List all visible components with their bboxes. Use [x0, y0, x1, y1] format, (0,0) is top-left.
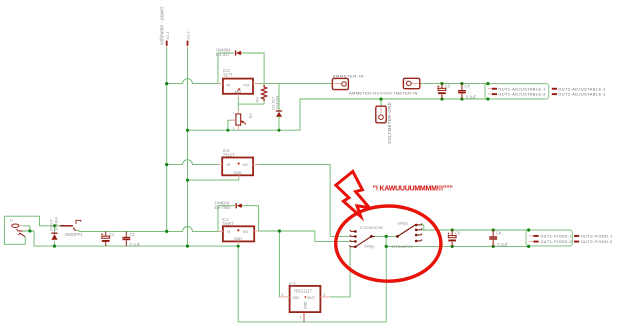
- svg-text:IC3: IC3: [289, 281, 296, 286]
- svg-text:J1: J1: [10, 219, 14, 223]
- node junction C6 top: [492, 228, 495, 231]
- diode D2 1N4004 from ADJ to output: [276, 111, 282, 117]
- op-amp regulator IC4 7812T body: [218, 158, 257, 179]
- wire OUT1-ADJUSTABLE group frame: [485, 84, 549, 99]
- wire switch ON/OFF1 output to IC1 VI with hop over X1-2 line: [77, 226, 223, 231]
- annotation ellipse around switches: [336, 206, 441, 281]
- wire net AMMETER-OUT/VOLTMETER-IN lower bus: [300, 98, 488, 100]
- svg-text:VO: VO: [242, 163, 248, 167]
- svg-text:OUT: OUT: [307, 296, 316, 300]
- svg-text:OUT2-FIXED-2: OUT2-FIXED-2: [581, 239, 613, 244]
- wire IC2 ADJ node to R3 bottom: [238, 96, 264, 111]
- wire X1-1 to IC2 VI with hop over X1-2 line: [167, 79, 223, 84]
- wire IC4 GND to X1-2 line: [188, 178, 239, 181]
- svg-text:GND: GND: [234, 237, 242, 241]
- node junction X1-2 / IC4 GND: [186, 179, 189, 182]
- svg-text:OUT2-ADJUSTABLE-1: OUT2-ADJUSTABLE-1: [558, 86, 606, 91]
- switch ON/OFF1: [60, 220, 81, 230]
- svg-text:D3-7805: D3-7805: [215, 205, 232, 210]
- svg-text:OUT1-ADJUSTABLE-2: OUT1-ADJUSTABLE-2: [498, 92, 546, 97]
- regulator IC3 REG1117 body: [279, 286, 330, 322]
- pin X1-1: [166, 41, 168, 48]
- wire SW2 contact 1 jumper: [421, 225, 424, 230]
- wire SW2 to fixed output top bus: [421, 229, 529, 231]
- diode D1 1N4004 across IC2: [236, 50, 241, 55]
- node junction D4 bottom: [53, 245, 56, 248]
- node junction C3 bottom: [440, 97, 443, 100]
- wire REG1117 ground return to switch node: [238, 236, 386, 322]
- svg-text:C3: C3: [445, 84, 451, 89]
- node junction D4 top: [53, 224, 56, 227]
- svg-text:OUT1-FIXED-2: OUT1-FIXED-2: [540, 239, 572, 244]
- svg-text:VO: VO: [243, 230, 249, 234]
- wire VOLTMETER-GND tap: [380, 99, 382, 107]
- wire D2 from output node down to ADJ net: [278, 84, 280, 131]
- node junction X1-1 / IC2 VI: [165, 82, 168, 85]
- svg-text:1T1SW/3CHK: 1T1SW/3CHK: [360, 226, 384, 230]
- node junction jack pins: [28, 229, 31, 232]
- svg-text:C1: C1: [109, 232, 115, 237]
- svg-text:0.1uF: 0.1uF: [497, 242, 508, 247]
- svg-text:OUT1-FIXED-1: OUT1-FIXED-1: [540, 234, 572, 239]
- wire D1 cathode to IC2 output node: [242, 53, 264, 84]
- svg-text:VI: VI: [227, 230, 231, 234]
- svg-text:3: 3: [282, 293, 284, 297]
- svg-text:R2: R2: [248, 113, 253, 119]
- capacitor C5 polarized: [448, 230, 456, 246]
- svg-text:OUT2-FIXED-1: OUT2-FIXED-1: [581, 234, 613, 239]
- svg-text:ON/OFF1: ON/OFF1: [65, 232, 84, 237]
- pin OUT1-FIXED-1: [529, 235, 539, 237]
- op-amp regulator IC2 317T body: [218, 79, 259, 97]
- wire ADJ net horizontal to voltmeter-in riser: [188, 99, 301, 130]
- wire IC4 VO to switch SW1 contact 2: [257, 165, 350, 237]
- pin OUT1-FIXED-2: [529, 241, 539, 243]
- node junction fixed frame bottom-left: [527, 245, 530, 248]
- wire OUT1-FIXED group frame: [526, 230, 572, 246]
- svg-text:D1-317: D1-317: [216, 52, 230, 57]
- node junction IC1 output / REG1117 branch: [278, 229, 281, 232]
- svg-text:X1-2: X1-2: [186, 31, 191, 40]
- pin OUT2-FIXED-1: [574, 235, 579, 237]
- wire DC jack center pin to ground bus: [23, 231, 238, 246]
- connector AMMETER-OUT/VOLTMETER-IN: [403, 78, 419, 88]
- op-amp regulator IC1 7805T body: [218, 226, 259, 244]
- svg-text:1N4004: 1N4004: [53, 216, 58, 231]
- wire jack pin lead: [23, 226, 30, 231]
- pin OUT2-FIXED-2: [574, 241, 579, 243]
- svg-text:VOLTMETER-GND: VOLTMETER-GND: [387, 102, 392, 144]
- DC power jack J1: [12, 224, 25, 237]
- node junction fixed ground bus: [385, 245, 388, 248]
- capacitor C6: [489, 230, 497, 246]
- node junction IC1 GND / ground bus: [237, 245, 240, 248]
- svg-text:REG1117: REG1117: [294, 288, 312, 293]
- svg-text:2: 2: [324, 293, 326, 297]
- node junction C6 bottom: [492, 245, 495, 248]
- wire REG1117 OUT up to SW1 pole: [330, 247, 350, 297]
- svg-text:317T: 317T: [223, 73, 233, 78]
- svg-text:GND: GND: [233, 171, 241, 175]
- svg-text:VIN: VIN: [293, 296, 299, 300]
- wire IC2 VO to AMMETER-IN: [254, 83, 332, 85]
- pin OUT1-ADJUSTABLE-1: [488, 88, 497, 90]
- wire node to SW2 wiper: [386, 235, 397, 237]
- connector AMMETER-IN: [332, 78, 348, 89]
- svg-text:C4: C4: [464, 84, 470, 89]
- svg-text:R3: R3: [255, 96, 260, 102]
- diode D3 1N4004 across IC1: [236, 203, 241, 208]
- annotation lightning bolt: [336, 171, 369, 216]
- capacitor C3 polarized: [437, 84, 446, 99]
- svg-text:”! KAWUUUUMMMM!!!”””: ”! KAWUUUUMMMM!!!”””: [373, 186, 453, 193]
- node junction fixed frame top-left: [527, 228, 530, 231]
- switch SW2 rotary contacts: [397, 224, 423, 242]
- svg-text:VI: VI: [227, 163, 231, 167]
- svg-text:0.1uF: 0.1uF: [466, 94, 477, 99]
- svg-text:VI: VI: [226, 83, 230, 87]
- node junction adjustable frame bottom-left: [486, 97, 489, 100]
- wire net X1-2 vertical line from pin X1-2 down to ground bus: [187, 48, 189, 247]
- node junction C5 top: [451, 228, 454, 231]
- svg-text:X1-1: X1-1: [165, 31, 170, 40]
- pin X1-2: [187, 41, 189, 48]
- wire DC jack sleeve route around connector: [4, 216, 60, 244]
- svg-text:7805T: 7805T: [222, 221, 234, 226]
- wire fixed output ground bus: [386, 245, 529, 247]
- node junction C4 bottom: [460, 97, 463, 100]
- switch SW1 rotary contacts: [349, 230, 374, 248]
- svg-text:1N4004: 1N4004: [275, 95, 280, 110]
- node junction C3 top: [440, 82, 443, 85]
- wire R2 wiper to ADJ net: [228, 120, 236, 130]
- wire AMMETER-OUT connector to adjustable output bus: [420, 83, 488, 85]
- capacitor C2: [122, 231, 130, 246]
- capacitor C1 polarized: [101, 231, 110, 246]
- svg-text:OUT1-ADJUSTABLE-1: OUT1-ADJUSTABLE-1: [498, 86, 546, 91]
- svg-text:C5: C5: [455, 231, 461, 236]
- potentiometer R2: [231, 111, 246, 130]
- connector VOLTMETER-GND: [376, 106, 386, 123]
- svg-text:OUT2-ADJUSTABLE-2: OUT2-ADJUSTABLE-2: [558, 92, 606, 97]
- svg-text:VO: VO: [243, 83, 249, 87]
- node junction C4 top: [460, 82, 463, 85]
- svg-text:AMMETER-OUT/VOLTMETER-IN: AMMETER-OUT/VOLTMETER-IN: [349, 91, 418, 96]
- node junction R2 wiper / ADJ net: [226, 129, 229, 132]
- wire IC1 output node down to REG1117 VIN: [278, 231, 280, 297]
- svg-text:1: 1: [233, 111, 235, 115]
- wire IC1 VO to switch SW1 contact 3: [254, 231, 350, 241]
- node junction C5 bottom: [451, 245, 454, 248]
- wire D4 input protection diode leads: [54, 226, 56, 246]
- node junction VOLTMETER-GND tap: [379, 97, 382, 100]
- wire D3 anode branch from IC1 input: [218, 206, 235, 232]
- svg-text:SW(p): SW(p): [398, 222, 408, 226]
- node junction adjustable frame top-left: [486, 82, 489, 85]
- node junction X1-2 / ADJ net: [186, 129, 189, 132]
- wire SW1 pole output to node: [375, 235, 387, 237]
- node junction D2 / ADJ net: [278, 129, 281, 132]
- pin OUT1-ADJUSTABLE-2: [488, 93, 497, 95]
- svg-text:C2: C2: [130, 232, 136, 237]
- pin OUT2-ADJUSTABLE-1: [552, 88, 557, 90]
- wire X1-1 to IC4 VI with hop over X1-2 line: [167, 160, 223, 165]
- capacitor C4: [458, 84, 466, 99]
- node junction X1-2 / ground bus: [186, 245, 189, 248]
- svg-text:0.1uF: 0.1uF: [130, 242, 141, 247]
- svg-text:SW(p): SW(p): [364, 245, 374, 249]
- svg-text:GND: GND: [303, 301, 307, 309]
- svg-text:ADJ: ADJ: [234, 90, 241, 94]
- diode D4 INPUT 1N4004 reverse protection: [51, 233, 57, 240]
- svg-text:7812T: 7812T: [223, 152, 235, 157]
- svg-text:3: 3: [233, 126, 235, 130]
- pin OUT2-ADJUSTABLE-2: [552, 93, 557, 95]
- svg-text:1T1SW8TOK: 1T1SW8TOK: [391, 245, 413, 249]
- wire IC1 GND down to REG1117 ground return: [237, 244, 239, 322]
- svg-text:AMMETER-IN: AMMETER-IN: [333, 73, 364, 78]
- wire net X1-1 vertical line from pin X1-1 down to main bottom bus: [166, 48, 168, 232]
- node junction X1-1 / main input bus: [165, 230, 168, 233]
- node junction X1-1 / IC4 VI: [165, 163, 168, 166]
- node junction SW1 pole output: [385, 235, 388, 238]
- svg-text:1: 1: [300, 316, 302, 320]
- resistor R3: [262, 85, 267, 101]
- svg-text:C6: C6: [496, 231, 502, 236]
- wire D3 cathode to IC1 output node: [241, 206, 258, 231]
- wire D1 anode branch from IC2 input: [218, 53, 234, 84]
